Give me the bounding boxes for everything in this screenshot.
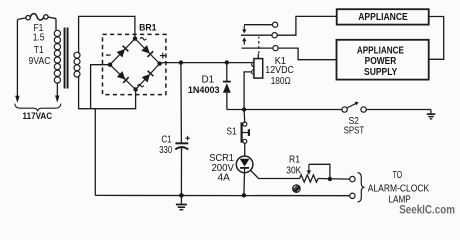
svg-text:180Ω: 180Ω [271,76,291,87]
capacitor C1 [175,143,188,149]
svg-text:T1: T1 [34,45,44,56]
wire fuse to primary [48,17,56,30]
relay contact pole 2 [241,33,277,45]
svg-text:ALARM-CLOCK: ALARM-CLOCK [368,183,430,194]
K1 mechanical dashed link [258,37,260,54]
wire secondary top to bridge [79,16,135,53]
wire R1 right [318,178,350,181]
relay contact pole 3 [242,46,279,51]
bridge diode top-right [141,45,153,57]
fuse F1 [26,14,48,20]
svg-text:R1: R1 [289,155,300,166]
bridge diode bottom-left [117,71,129,83]
brace to lamp [358,173,365,202]
bridge BR1 dashed box [103,34,166,94]
svg-text:330: 330 [159,145,172,156]
wire to S1 [243,110,246,123]
wire down to ground rail [94,109,96,196]
svg-text:D1: D1 [201,74,214,85]
ground symbol right [427,110,436,119]
bridge diode top-left [117,46,129,58]
svg-text:30K: 30K [286,166,301,177]
117VAC left arrowhead [15,96,19,103]
svg-text:9VAC: 9VAC [29,56,51,67]
svg-text:BR1: BR1 [139,23,157,34]
mark plus [160,53,166,59]
svg-text:C1: C1 [161,135,172,146]
box APPLIANCE [337,9,429,24]
node D1 top [225,60,229,64]
svg-text:4A: 4A [218,173,231,184]
switch S2 [342,102,366,113]
wire linking box outputs [429,17,444,60]
svg-text:APPLIANCE: APPLIANCE [357,46,404,57]
resistor R1 zigzag [300,175,318,182]
terminal lamp upper [350,176,355,181]
mark ~ top [140,38,146,41]
mark ~ bottom [138,84,144,87]
transformer T1 secondary winding [74,52,80,77]
node bridge top [133,36,137,40]
node bridge left [108,62,112,66]
svg-text:APPLIANCE: APPLIANCE [358,12,408,23]
box APPLIANCE POWER SUPPLY [337,40,429,80]
transformer T1 primary winding [54,30,60,83]
117VAC right arrowhead [55,96,59,103]
diode D1 [223,63,231,110]
thyristor SCR1 [236,156,299,195]
transformer T1 core [64,28,69,89]
node bridge bottom [133,87,137,91]
svg-text:12VDC: 12VDC [265,65,294,76]
terminal lamp lower [350,193,355,198]
label TO ALARM-CLOCK LAMP [368,170,430,206]
node C1 top [179,60,183,64]
switch S1 pushbutton [242,122,249,143]
wire contact 3 to appliance power supply [278,48,336,60]
wire contact 2 to appliance [277,16,336,35]
wire SCR anode rail [227,109,342,111]
svg-text:117VAC: 117VAC [23,111,53,122]
wire C1 bottom lead [180,148,182,196]
wire secondary bottom rail [79,76,136,109]
node bridge right [157,61,161,65]
node S1 junction [242,107,246,111]
svg-text:SUPPLY: SUPPLY [364,67,398,78]
svg-text:1.5: 1.5 [33,33,45,44]
wire S2 to ground [366,109,431,111]
bridge diamond wires [110,39,160,90]
ground symbol left [176,195,187,209]
wire C1 top lead [180,63,183,143]
svg-text:S1: S1 [226,126,236,137]
mark minus [106,54,111,56]
svg-text:TO: TO [393,170,403,181]
117VAC underbrace [15,104,61,112]
wire S1 to SCR [244,143,246,156]
R1 wiper arm [307,164,330,179]
C1 plus sign [185,136,190,141]
wire primary bottom lead [56,83,58,96]
svg-text:SeekIC.com: SeekIC.com [399,205,455,217]
wire bridge minus to bottom [91,65,110,109]
svg-text:SPST: SPST [344,125,365,136]
wire ground rail [95,194,349,196]
wire DC plus rail [160,63,252,64]
wire 117VAC left lead [17,18,25,96]
adjustment symbol [293,185,300,192]
relay K1 coil [252,54,263,78]
svg-text:1N4003: 1N4003 [188,85,220,96]
wire K1 lower terminal [244,72,252,110]
relay contact pole 1 [242,22,278,33]
node R1 wiper junction [328,177,332,181]
bridge diode bottom-right [142,71,154,83]
svg-text:POWER: POWER [365,56,397,67]
node SCR cathode [242,193,246,197]
label APPLIANCE POWER SUPPLY [357,46,404,78]
node ground junction [179,193,184,198]
